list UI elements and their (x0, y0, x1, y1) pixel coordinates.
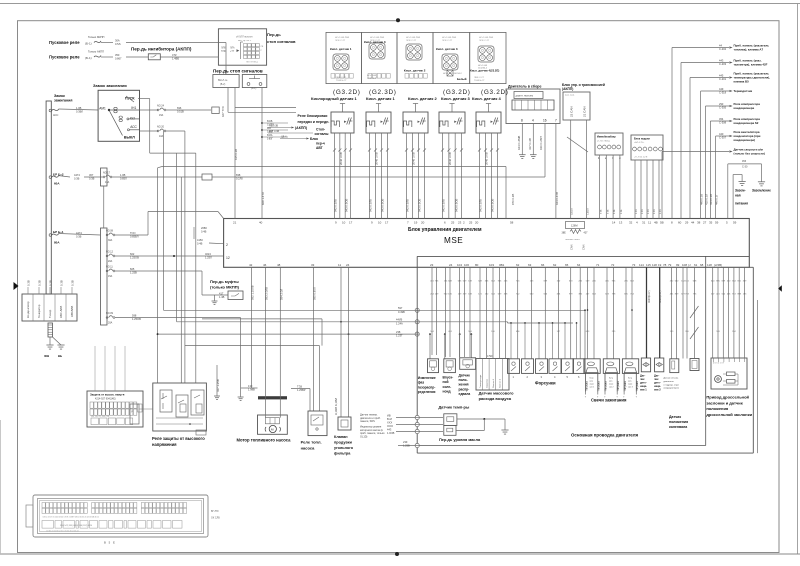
svg-text:Сигнал 2: Сигнал 2 (500, 378, 502, 388)
svg-text:602: 602 (130, 252, 135, 256)
svg-text:(АКПП): (АКПП) (562, 87, 573, 91)
svg-text:Защелка: Защелка (487, 378, 489, 388)
svg-text:Кату: Кату (609, 378, 613, 380)
svg-text:2046 3.0В: 2046 3.0В (448, 152, 452, 165)
svg-text:449: 449 (719, 87, 724, 91)
svg-text:Реле защиты от высокого: Реле защиты от высокого (152, 436, 205, 441)
svg-text:Конденсатор: Конденсатор (26, 301, 30, 318)
svg-text:042 0.5ЛБ: 042 0.5ЛБ (406, 199, 410, 212)
svg-text:410 0.3Л: 410 0.3Л (704, 194, 708, 205)
svg-text:20А: 20А (108, 322, 113, 325)
svg-text:угольного: угольного (334, 446, 354, 450)
svg-text:24: 24 (449, 263, 453, 267)
svg-text:414 0.3Б: 414 0.3Б (709, 194, 713, 205)
svg-text:13: 13 (619, 221, 623, 225)
svg-text:597: 597 (398, 306, 403, 310)
svg-text:970 0.3В: 970 0.3В (511, 194, 515, 205)
svg-text:С-202: С-202 (719, 47, 727, 51)
svg-text:65: 65 (565, 263, 569, 267)
svg-text:4: 4 (532, 119, 534, 123)
svg-text:Форсунки: Форсунки (535, 381, 556, 386)
svg-text:293: 293 (719, 102, 724, 106)
svg-text:Датчик: Датчик (459, 374, 471, 378)
svg-text:4B: 4B (654, 221, 658, 225)
svg-text:АБС-АБВ: АБС-АБВ (59, 306, 63, 318)
svg-text:СМ2Л(9-97): СМ2Л(9-97) (649, 290, 651, 303)
svg-text:GL1D): GL1D) (360, 435, 368, 438)
svg-text:42: 42 (249, 263, 253, 267)
svg-text:042 0.5ЛБ: 042 0.5ЛБ (369, 199, 373, 212)
svg-text:78: 78 (663, 263, 667, 267)
svg-text:59: 59 (733, 221, 737, 225)
svg-text:NO.24: NO.24 (157, 105, 165, 108)
svg-text:Дат-: Дат- (654, 374, 660, 378)
svg-text:62: 62 (553, 263, 557, 267)
svg-text:20А: 20А (108, 260, 113, 263)
svg-text:тахометра), клемма 42F: тахометра), клемма 42F (734, 63, 768, 67)
svg-text:44УВ: 44УВ (396, 318, 403, 322)
svg-text:Изменение: Изменение (418, 376, 436, 380)
svg-text:ределения: ределения (418, 390, 436, 394)
svg-text:0.85Г: 0.85Г (267, 138, 273, 140)
svg-text:АСС: АСС (53, 113, 59, 117)
svg-text:72: 72 (611, 263, 615, 267)
svg-text:ТОО: ТОО (130, 231, 136, 235)
svg-text:Пер.дь муфты: Пер.дь муфты (210, 279, 239, 284)
svg-text:23: 23 (458, 221, 462, 225)
svg-text:440 0.3Г: 440 0.3Г (714, 194, 718, 205)
svg-text:ЧВГ 345 ПР 904 СЗВ: ЧВГ 345 ПР 904 СЗВ (91, 416, 110, 418)
svg-text:(В-2): (В-2) (220, 83, 226, 86)
svg-text:60А: 60А (54, 182, 60, 186)
svg-text:С-308: С-308 (719, 121, 727, 125)
svg-text:103: 103 (489, 263, 494, 267)
svg-text:ЛСФ С-2Т: ЛСФ С-2Т (370, 39, 381, 42)
svg-text:ВЫКЛ: ВЫКЛ (124, 135, 135, 139)
svg-text:Защита от высок. напр-я: Защита от высок. напр-я (90, 393, 125, 397)
svg-text:А,ЭКВ А,ЭБЛ: А,ЭКВ А,ЭБЛ (334, 398, 338, 415)
svg-text:043 0.5ОБ: 043 0.5ОБ (418, 198, 422, 212)
svg-text:0.85ВЛ: 0.85ВЛ (130, 235, 139, 239)
svg-text:ХХХ: ХХХ (387, 420, 392, 424)
svg-text:307: 307 (89, 173, 94, 177)
svg-text:1.25ОВ: 1.25ОВ (130, 256, 139, 260)
svg-text:ЛСФ С-2Т: ЛСФ С-2Т (442, 39, 453, 42)
svg-text:IН1: IН1 (131, 106, 136, 110)
svg-text:15А: 15А (159, 114, 164, 117)
svg-text:17: 17 (385, 221, 389, 225)
svg-text:4TZ: 4TZ (172, 53, 177, 57)
svg-text:насоса: насоса (301, 446, 316, 451)
svg-text:27: 27 (703, 221, 707, 225)
svg-text:114: 114 (639, 263, 644, 267)
svg-text:ЛВ I ЛУ ВК-м: ЛВ I ЛУ ВК-м (246, 62, 259, 64)
svg-text:99: 99 (676, 263, 680, 267)
svg-text:417 С-3В: 417 С-3В (528, 138, 532, 150)
svg-text:дроссельной заслонки: дроссельной заслонки (706, 412, 752, 417)
svg-text:+П -П С1 С2 Е: +П -П С1 С2 Е (634, 157, 648, 159)
svg-text:Реле топл.: Реле топл. (301, 440, 322, 445)
svg-text:MSE: MSE (444, 236, 463, 245)
svg-text:0B1: 0B1 (499, 263, 505, 267)
svg-text:ВЫ-Л-№: ВЫ-Л-№ (218, 79, 228, 82)
svg-text:ОК СЛВ: ОК СЛВ (211, 517, 220, 520)
svg-text:(G3.2D): (G3.2D) (481, 89, 509, 96)
svg-text:79: 79 (668, 263, 672, 267)
svg-text:Термодатчик: Термодатчик (734, 89, 753, 93)
svg-text:мес. тр. лв. т: мес. тр. лв. т (238, 40, 251, 42)
svg-text:АВТ: АВТ (316, 146, 323, 150)
svg-text:(2/4B): (2/4B) (714, 263, 722, 267)
svg-text:НО-З.ЧФ ЛВФ: НО-З.ЧФ ЛВФ (406, 36, 420, 39)
svg-text:топлива), клемма А7: топлива), клемма А7 (734, 48, 764, 52)
svg-text:Датчик: Датчик (669, 415, 681, 419)
svg-text:0.3Б: 0.3Б (621, 209, 623, 214)
svg-text:68: 68 (700, 263, 704, 267)
svg-text:38Е: 38Е (562, 232, 567, 235)
svg-text:Реле блокировки: Реле блокировки (298, 114, 328, 118)
svg-text:едвала: едвала (459, 392, 471, 396)
svg-text:NO.08: NO.08 (106, 230, 114, 233)
svg-text:ТШФ Б-СТ: ТШФ Б-СТ (336, 79, 347, 82)
svg-text:1.25ВР: 1.25ВР (297, 388, 306, 392)
svg-text:+ТТ: +ТТ (230, 51, 235, 53)
svg-text:соле-: соле- (443, 385, 452, 389)
svg-text:ВБ: ВБ (58, 354, 62, 358)
svg-text:Блок: Блок (310, 137, 318, 141)
svg-text:Пер.дь ингибитора (АКПП): Пер.дь ингибитора (АКПП) (131, 46, 192, 52)
svg-text:Свечи зажигания: Свечи зажигания (591, 398, 627, 403)
svg-text:НО-З.ЧФ ЛВФ: НО-З.ЧФ ЛВФ (479, 36, 493, 39)
svg-text:Двигатель в сборе: Двигатель в сборе (508, 85, 542, 89)
svg-text:592 1.25ЛБ: 592 1.25ЛБ (251, 285, 255, 300)
svg-text:0.3В: 0.3В (38, 280, 42, 286)
svg-text:NO.11: NO.11 (106, 266, 113, 269)
svg-text:Катушка: Катушка (636, 380, 639, 390)
svg-text:положения: положения (669, 420, 688, 424)
svg-text:распр-: распр- (459, 387, 470, 391)
svg-text:С-30: С-30 (742, 166, 748, 169)
svg-text:4024: 4024 (205, 252, 211, 256)
svg-text:ТЭЗ: ТЭЗ (297, 384, 302, 388)
svg-text:627 ТУЗ: 627 ТУЗ (221, 106, 225, 117)
svg-text:104: 104 (457, 263, 462, 267)
svg-text:10: 10 (342, 221, 346, 225)
svg-text:593 2.0ЛВ: 593 2.0ЛВ (264, 287, 268, 300)
svg-text:NO.20: NO.20 (157, 126, 165, 129)
svg-text:(Б-1): (Б-1) (85, 56, 92, 60)
svg-text:фаз: фаз (418, 381, 425, 385)
svg-text:ния 3: ния 3 (628, 387, 633, 389)
svg-text:ЛЛА: ЛЛА (230, 47, 235, 50)
svg-text:Клапан: Клапан (334, 435, 348, 439)
svg-text:043 0.5ОБ: 043 0.5ОБ (454, 198, 458, 212)
svg-text:0.85Л: 0.85Л (120, 177, 127, 181)
svg-text:1.23Г: 1.23Г (396, 334, 403, 338)
svg-text:0.3Б: 0.3Б (614, 209, 616, 214)
svg-text:453: 453 (742, 160, 747, 163)
svg-text:118: 118 (652, 263, 657, 267)
svg-text:0.85Л: 0.85Л (267, 131, 273, 133)
svg-text:63: 63 (528, 263, 532, 267)
svg-text:30А: 30А (108, 239, 113, 242)
svg-text:Кисл. датчик 2: Кисл. датчик 2 (404, 68, 426, 72)
svg-text:CAN: CAN (570, 244, 574, 250)
svg-text:панели, SDS: панели, SDS (360, 420, 375, 423)
svg-text:СМ2Л(9-97): СМ2Л(9-97) (660, 290, 662, 303)
svg-text:положения: положения (706, 406, 729, 411)
svg-text:0.3В: 0.3В (60, 280, 64, 286)
svg-text:ТЛФ: ТЛФ (221, 50, 226, 53)
svg-text:0.4В: 0.4В (201, 230, 207, 234)
svg-text:ная: ная (735, 194, 741, 198)
svg-text:0.3В: 0.3В (27, 280, 31, 286)
svg-text:АВСАВВ: АВСАВВ (70, 306, 74, 317)
svg-text:Пусковое реле: Пусковое реле (49, 55, 80, 60)
svg-text:Основная проводка двигателя: Основная проводка двигателя (571, 433, 639, 438)
svg-text:NO.12: NO.12 (106, 251, 114, 254)
svg-text:NO.09: NO.09 (106, 312, 114, 315)
svg-text:Кисл. датчик 1: Кисл. датчик 1 (366, 96, 396, 101)
svg-text:31: 31 (642, 221, 646, 225)
svg-text:46: 46 (263, 263, 267, 267)
svg-text:58: 58 (510, 221, 514, 225)
svg-text:139: 139 (248, 384, 253, 388)
svg-text:23: 23 (430, 263, 434, 267)
svg-text:Катушка: Катушка (598, 380, 601, 390)
svg-text:ДИАГН. РАЗЪЕМ: ДИАГН. РАЗЪЕМ (516, 94, 534, 97)
svg-text:11: 11 (338, 263, 341, 267)
svg-text:25: 25 (451, 221, 455, 225)
svg-text:НО-З.ЧФ ЛВФ: НО-З.ЧФ ЛВФ (370, 36, 384, 39)
svg-text:Кисл. датчик 1: Кисл. датчик 1 (330, 47, 352, 51)
svg-text:ЛСФ С-2Т: ЛСФ С-2Т (335, 39, 346, 42)
svg-text:417 1.25В: 417 1.25В (216, 379, 220, 392)
svg-text:1.0В: 1.0В (120, 173, 126, 177)
svg-text:1.25В: 1.25В (130, 271, 137, 275)
svg-text:поло-: поло- (459, 378, 468, 382)
svg-text:ИВ: ИВ (387, 413, 391, 417)
svg-text:21 CAN: 21 CAN (583, 106, 587, 117)
svg-text:238: 238 (396, 330, 401, 334)
svg-text:118: 118 (707, 263, 712, 267)
svg-text:0.3В: 0.3В (71, 280, 75, 286)
svg-text:598: 598 (132, 313, 137, 317)
svg-text:0.3Л: 0.3Л (636, 209, 638, 214)
svg-text:СМ2Л: СМ2Л (571, 208, 574, 215)
svg-text:кондиционере): кондиционере) (664, 388, 679, 390)
svg-text:С-307: С-307 (719, 136, 727, 140)
svg-text:644 0.4УВ: 644 0.4УВ (555, 192, 559, 205)
svg-text:ЛЛФ: ЛЛФ (221, 47, 226, 50)
svg-text:Блок управления двигателем: Блок управления двигателем (408, 227, 482, 233)
svg-text:30В: 30В (44, 354, 49, 358)
svg-text:0.3В: 0.3В (76, 235, 82, 239)
svg-text:ЛВФ С-2Т: ЛВФ С-2Т (474, 76, 485, 79)
svg-text:12 343 41 52 63 52 61 0: 12 343 41 52 63 52 61 0 25 34 45 52 0Б 4… (46, 531, 79, 533)
svg-text:35: 35 (709, 221, 713, 225)
svg-text:С-318: С-318 (719, 91, 727, 95)
svg-text:зажи: зажи (628, 384, 632, 386)
svg-text:042 0.5ЛБ: 042 0.5ЛБ (479, 199, 483, 212)
svg-text:59: 59 (715, 221, 719, 225)
svg-text:Зазем-: Зазем- (735, 189, 746, 193)
svg-text:2046 3.0В: 2046 3.0В (412, 152, 416, 165)
svg-text:Датчик отзыва: Датчик отзыва (664, 378, 679, 380)
svg-text:33: 33 (311, 263, 315, 267)
svg-text:4150: 4150 (197, 238, 203, 242)
svg-text:двигателя: двигателя (664, 381, 675, 383)
svg-text:газораспр-: газораспр- (418, 385, 436, 389)
svg-text:21: 21 (233, 221, 237, 225)
svg-text:жения: жения (458, 383, 469, 387)
svg-text:Пер.дь: Пер.дь (267, 32, 281, 37)
svg-text:16: 16 (543, 119, 547, 123)
svg-text:Кисл. датчик 4: Кисл. датчик 4 (472, 96, 502, 101)
svg-text:0.3В: 0.3В (49, 280, 53, 286)
svg-text:СМ2Л: СМ2Л (587, 208, 590, 215)
svg-text:043 0.5ОБ: 043 0.5ОБ (491, 198, 495, 212)
svg-text:зажи: зажи (590, 384, 594, 386)
svg-text:сигналы: сигналы (315, 132, 329, 136)
svg-text:32: 32 (629, 221, 633, 225)
svg-text:об-5/97 выключ: об-5/97 выключ (236, 37, 253, 39)
svg-text:С-305: С-305 (719, 106, 727, 110)
svg-text:594 2.0Л: 594 2.0Л (279, 289, 283, 300)
svg-text:ПУСК: ПУСК (125, 96, 135, 100)
svg-text:Катушка: Катушка (624, 380, 627, 390)
svg-text:АСС: АСС (130, 125, 137, 129)
svg-text:В 5 Е: В 5 Е (104, 541, 116, 545)
svg-text:0.5Л-: 0.5Л- (115, 42, 121, 46)
svg-text:2046 3.0В: 2046 3.0В (375, 152, 379, 165)
svg-text:Привод дроссельной: Привод дроссельной (706, 395, 749, 400)
svg-text:20: 20 (421, 221, 425, 225)
svg-text:80: 80 (475, 263, 479, 267)
svg-text:клемма В5: клемма В5 (734, 80, 750, 84)
svg-text:25: 25 (469, 221, 473, 225)
svg-text:Температура: Температура (480, 374, 482, 388)
svg-text:595 0.85Л: 595 0.85Л (313, 287, 317, 300)
svg-text:ния 1: ния 1 (590, 387, 595, 389)
svg-text:0.3Л: 0.3Л (642, 209, 644, 214)
svg-text:коленвала: коленвала (669, 425, 687, 429)
svg-text:Кату: Кату (628, 378, 632, 380)
svg-text:38: 38 (697, 221, 701, 225)
svg-text:043 0.5ОБ: 043 0.5ОБ (344, 198, 348, 212)
svg-text:ики 1: ики 1 (640, 388, 647, 392)
svg-text:Блок педали: Блок педали (634, 138, 650, 141)
svg-text:042 0.5ЛБ: 042 0.5ЛБ (334, 199, 338, 212)
svg-text:Сигнал 1: Сигнал 1 (493, 378, 495, 388)
svg-text:Только АКПП: Только АКПП (88, 50, 104, 54)
svg-text:Тюнер: Тюнер (48, 309, 52, 318)
svg-text:Генератор: Генератор (37, 304, 41, 318)
svg-text:Датчик темп-ры: Датчик темп-ры (439, 405, 470, 410)
svg-text:ВГ ЛЮ: ВГ ЛЮ (211, 510, 219, 513)
svg-text:443: 443 (719, 58, 724, 62)
svg-text:71: 71 (596, 263, 600, 267)
svg-text:590| 547| 595| 44| 0| 596: 590| 547| 595| 44| 0| 596| 597| 4020 (60, 525, 93, 527)
svg-text:ЛСФ С-2Т: ЛСФ С-2Т (406, 39, 417, 42)
svg-text:Иммобилайзер: Иммобилайзер (597, 136, 616, 139)
svg-text:Только МКПП: Только МКПП (88, 35, 104, 39)
svg-text:440: 440 (719, 132, 724, 136)
svg-text:Пер.дь стоп сигналов: Пер.дь стоп сигналов (213, 69, 263, 74)
svg-text:(В-1): (В-1) (251, 87, 257, 90)
svg-text:С-203: С-203 (719, 62, 727, 66)
svg-text:Дат-: Дат- (640, 374, 646, 378)
svg-text:CAN: CAN (582, 244, 586, 250)
svg-text:Катушка: Катушка (605, 380, 608, 390)
svg-text:239: 239 (403, 440, 408, 444)
svg-text:17: 17 (349, 221, 353, 225)
svg-text:4474: 4474 (74, 173, 80, 177)
svg-text:НО-З.ЧФ ЛВФ: НО-З.ЧФ ЛВФ (442, 36, 456, 39)
svg-text:114234-2: 114234-2 (478, 68, 488, 70)
svg-text:14: 14 (612, 221, 616, 225)
svg-text:5B: 5B (660, 221, 664, 225)
svg-text:2: 2 (226, 243, 228, 247)
svg-text:(Б-1): (Б-1) (85, 42, 92, 46)
svg-text:15А: 15А (108, 275, 113, 278)
svg-text:4 6 5 2 1 3 7: 4 6 5 2 1 3 7 (713, 363, 725, 365)
svg-text:825: 825 (130, 267, 135, 271)
svg-text:80А: 80А (54, 241, 60, 245)
svg-text:696: 696 (177, 106, 182, 110)
svg-text:10А: 10А (159, 135, 164, 138)
svg-text:1.4ВБ: 1.4ВБ (172, 57, 179, 61)
svg-text:66: 66 (541, 263, 545, 267)
svg-text:0.3В: 0.3В (74, 177, 80, 181)
svg-text:22 CAN: 22 CAN (570, 106, 574, 117)
svg-text:1.0В: 1.0В (76, 106, 82, 110)
svg-text:Белый: Белый (457, 77, 467, 81)
svg-text:СВ 12 43 СТ 05 240 СВ 44 СТОП: СВ 12 43 СТ 05 240 СВ 44 СТОП 4 СВЕТ 08 … (43, 517, 99, 519)
svg-text:0.49В: 0.49В (398, 310, 405, 314)
svg-text:115: 115 (646, 263, 651, 267)
svg-text:108: 108 (682, 263, 687, 267)
svg-text:4214-927 904(14Е): 4214-927 904(14Е) (95, 398, 116, 401)
svg-text:437: 437 (584, 232, 589, 235)
svg-text:1.25ОВ: 1.25ОВ (132, 317, 141, 321)
svg-text:Впуск-: Впуск- (443, 376, 454, 380)
svg-text:в гидроус. (при: в гидроус. (при (664, 384, 680, 386)
svg-text:1.24А: 1.24А (396, 321, 403, 325)
svg-text:19: 19 (658, 263, 662, 267)
svg-text:Катушка: Катушка (585, 380, 588, 390)
svg-text:(G3.2D): (G3.2D) (443, 89, 471, 96)
svg-text:ТШФ Б-СТ: ТШФ Б-СТ (474, 79, 485, 82)
svg-text:7: 7 (555, 119, 557, 123)
svg-text:IG2: IG2 (130, 116, 135, 120)
svg-text:1.0ОВ: 1.0ОВ (387, 431, 395, 435)
svg-text:29: 29 (685, 221, 689, 225)
svg-text:454: 454 (719, 117, 724, 121)
svg-text:1.4В: 1.4В (219, 295, 225, 299)
svg-text:10: 10 (378, 221, 382, 225)
svg-text:62: 62 (516, 263, 520, 267)
svg-text:Замок зажигания: Замок зажигания (93, 83, 127, 88)
svg-text:зажи: зажи (609, 384, 613, 386)
svg-text:(только МКПП): (только МКПП) (210, 285, 240, 290)
svg-text:зажигания: зажигания (54, 98, 72, 102)
svg-text:кондиционера: кондиционера (734, 106, 755, 110)
svg-text:1.25В: 1.25В (403, 444, 410, 448)
svg-text:выв. выв.: выв. выв. (565, 95, 575, 97)
svg-text:Датчик массового: Датчик массового (479, 391, 515, 396)
svg-text:48: 48 (277, 263, 281, 267)
